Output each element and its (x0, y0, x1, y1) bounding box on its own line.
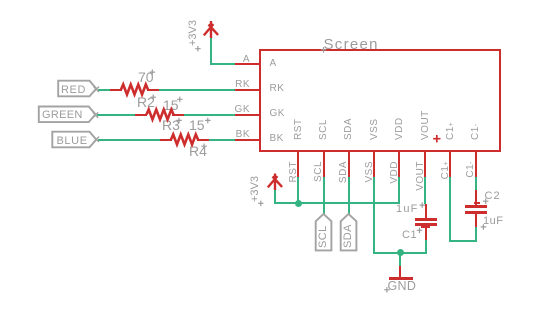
capacitor C1 top plate (415, 218, 437, 221)
capacitor C1 bottom plate (415, 223, 437, 226)
origin cross R3 (176, 118, 182, 124)
net label VDD (below box, rotated) (390, 161, 400, 207)
wire BLUE flag to R4 (98, 139, 160, 141)
capacitor C1 top lead (425, 204, 427, 219)
name R3 (162, 118, 180, 132)
resistor R3 zigzag (147, 110, 174, 120)
resistor R3 left lead (135, 114, 147, 116)
flag label SDA text (rotated) (343, 224, 354, 248)
wire VSS down (373, 177, 375, 254)
origin cross R4 (201, 144, 207, 150)
pin name VSS (inside, rotated) (370, 118, 380, 140)
ground symbol bar (389, 277, 413, 280)
connector flag GREEN outline (39, 107, 96, 123)
net label C1- (below box, rotated) (466, 161, 476, 207)
pin BK stub (235, 139, 259, 141)
pin name C1- (inside, rotated) (471, 123, 481, 140)
resistor R2 right lead (147, 89, 160, 91)
origin cross C2 (483, 199, 489, 205)
name C1 (402, 230, 417, 241)
value 1uF (C2) (483, 216, 503, 227)
wire GREEN flag to R3 (97, 114, 135, 116)
pin name VOUT (inside, rotated) (421, 110, 431, 140)
connector flag BLUE outline (52, 132, 96, 148)
wire R4 to pin BK (209, 139, 236, 141)
wire SDA to flag (348, 177, 350, 214)
wire RST to rail (297, 177, 299, 204)
IC U1 Screen box (259, 49, 501, 152)
capacitor C2 bottom lead (475, 214, 477, 227)
capacitor C2 bottom plate (465, 211, 487, 214)
pin A stub (235, 63, 259, 65)
pin name A (inside) (270, 59, 277, 69)
flag label SCL text (rotated) (318, 226, 329, 249)
capacitor C2 polarity plus horizontal (474, 202, 481, 204)
name C2 (485, 191, 501, 202)
origin cross +3V3 top (195, 46, 201, 51)
net label RK (210, 80, 250, 90)
wire RED flag to R2 (98, 89, 111, 91)
resistor R3 right lead (172, 114, 185, 116)
pin name SDA (inside, rotated) (344, 117, 354, 139)
pin name C1+ (inside, rotated) (446, 121, 456, 139)
origin cross 1uF C1 (420, 202, 426, 208)
wire VOUT to C1 (424, 177, 426, 204)
pin name BK (inside) (270, 134, 284, 144)
resistor R4 zigzag (171, 135, 198, 145)
connector flag SCL outline (316, 214, 332, 251)
value 70 (R2) (138, 70, 154, 84)
pin SCL stub (323, 152, 325, 177)
resistor R2 zigzag (121, 85, 148, 95)
connector flag RED tip x (94, 87, 99, 92)
origin cross Screen (321, 47, 327, 53)
connector flag GREEN tip x (93, 112, 98, 117)
origin cross 70 (150, 69, 156, 75)
connector flag BLUE tip x (94, 137, 99, 142)
pin SDA stub (348, 152, 350, 177)
origin cross 1uF C2 (481, 224, 487, 230)
pin VDD stub (398, 152, 400, 177)
pin VOUT stub (424, 152, 426, 177)
ground symbol stem (399, 266, 401, 278)
pin C1- stub (475, 152, 477, 177)
capacitor C2 top lead (475, 190, 477, 205)
wire C1 to ground rail (425, 240, 427, 253)
wire +3V3 top vertical (210, 37, 212, 65)
pin polarity plus C1+ (inside box, red) (433, 135, 440, 142)
net label VOUT (below box, rotated) (416, 161, 426, 207)
wire R3 to pin GK (184, 114, 236, 116)
junction dot GND (397, 249, 404, 256)
net label GK (210, 105, 250, 115)
origin cross 15 R3 (177, 97, 183, 103)
connector flag RED outline (58, 81, 96, 97)
net label SCL (below box, rotated) (314, 161, 324, 207)
capacitor C1 polarity plus horizontal (421, 226, 430, 228)
wire +3V3 to pin A horizontal (210, 63, 236, 65)
net label SDA (below box, rotated) (339, 161, 349, 207)
net label A (210, 55, 250, 65)
capacitor C1 bottom lead (425, 226, 427, 241)
value 15 (R3) (163, 98, 179, 112)
label GND (388, 280, 417, 293)
pin name RST (inside, rotated) (294, 118, 304, 140)
resistor R4 left lead (160, 139, 172, 141)
value 15 (R4) (189, 118, 205, 132)
net label BK (210, 130, 250, 140)
pin GK stub (235, 114, 259, 116)
pin name VDD (inside, rotated) (395, 117, 405, 140)
wire C1+ to C2 bottom horizontal (449, 240, 477, 242)
label +3V3 top (rotated) (188, 20, 199, 46)
resistor R2 left lead (110, 89, 122, 91)
supply +3V3 top arrow (204, 21, 218, 38)
connector flag SDA outline (341, 214, 357, 251)
flag label RED text (61, 85, 86, 96)
origin cross 15 R4 (205, 118, 211, 124)
supply +3V3 bottom arrow (268, 174, 282, 191)
pin C1+ stub (449, 152, 451, 177)
title Screen (324, 37, 379, 52)
name R4 (189, 144, 207, 158)
wire C1+ down (449, 177, 451, 242)
junction dot RST/+3V3 (295, 200, 302, 207)
wire SCL to flag (323, 177, 325, 214)
pin name RK (inside) (270, 84, 285, 94)
net label VSS (below box, rotated) (365, 161, 375, 207)
wire VDD to rail (398, 177, 400, 204)
capacitor C2 top plate (465, 205, 487, 208)
wire GND drop green (399, 252, 401, 267)
label +3V3 bottom (rotated) (250, 176, 261, 202)
origin cross R2 (151, 95, 157, 101)
pin VSS stub (373, 152, 375, 177)
pin name GK (inside) (270, 109, 285, 119)
wire ground rail (373, 252, 427, 254)
pin RST stub (297, 152, 299, 177)
wire R2 to pin RK (159, 89, 236, 91)
value 1uF (C1) (396, 204, 419, 215)
wire C2 bottom vertical (475, 227, 477, 242)
wire +3V3 bottom vertical (274, 188, 276, 204)
net label C1+ (below box, rotated) (441, 161, 451, 207)
pin RK stub (235, 89, 259, 91)
wire C1- down (475, 177, 477, 191)
flag label BLUE text (57, 136, 88, 147)
origin cross C1 (417, 228, 423, 234)
origin cross +3V3 bottom (258, 201, 264, 207)
pin name SCL (inside, rotated) (319, 119, 329, 140)
name R2 (137, 95, 155, 109)
flag label GREEN text (42, 110, 83, 121)
origin cross GND (384, 287, 390, 293)
wire +3V3 rail to VDD (274, 202, 399, 204)
resistor R4 right lead (197, 139, 210, 141)
net label RST (below box, rotated) (289, 161, 299, 207)
